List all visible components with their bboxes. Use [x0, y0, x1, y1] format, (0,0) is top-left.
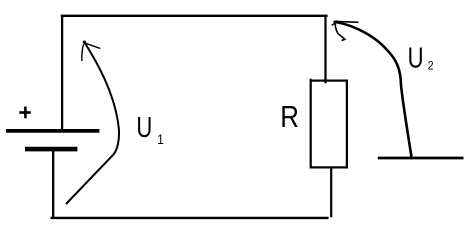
svg-text:R: R	[280, 99, 299, 133]
svg-text:U: U	[136, 113, 152, 144]
svg-text:2: 2	[428, 60, 434, 73]
svg-text:1: 1	[157, 131, 164, 147]
svg-text:U: U	[408, 43, 424, 74]
